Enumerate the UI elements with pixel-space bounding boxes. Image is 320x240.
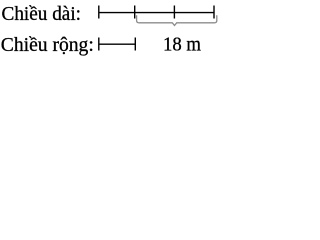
wire: length segment line [99,12,214,14]
node: width tick 2 [134,38,136,51]
svg-text:Chiều rộng:: Chiều rộng: [1,34,94,56]
brace under length difference, pointing at 18 m [137,15,217,25]
svg-text:18 m: 18 m [163,33,201,55]
node: length tick 3 [173,6,175,19]
node: length tick 4 [213,6,215,19]
node: width tick 1 [98,38,100,51]
node: length tick 1 [98,6,100,19]
wire: width segment line [99,43,136,45]
svg-text:Chiều dài:: Chiều dài: [2,3,82,25]
node: length tick 2 [134,6,136,19]
